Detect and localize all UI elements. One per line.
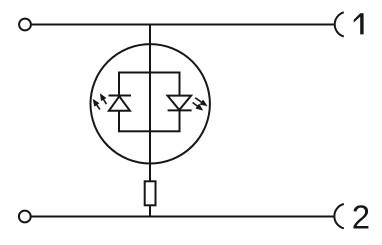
svg-text:2: 2 [352,198,370,235]
